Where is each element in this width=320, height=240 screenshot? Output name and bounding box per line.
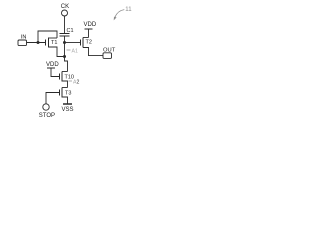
terminal OUT [103, 53, 112, 59]
transistor T3 [60, 88, 68, 104]
wire node A1 to T10 drain (with jog) [65, 57, 68, 72]
node CK label [61, 4, 69, 10]
node A2 leader [69, 80, 73, 82]
node A1 leader [67, 49, 71, 51]
svg-text:VSS: VSS [62, 107, 74, 113]
svg-text:T2: T2 [86, 39, 92, 45]
svg-text:11: 11 [125, 7, 132, 13]
power VDD rail (left) [47, 68, 60, 77]
power VDD rail (right) [85, 29, 93, 38]
terminal STOP [43, 104, 49, 110]
junction node A1 top [63, 41, 66, 44]
svg-text:IN: IN [21, 34, 27, 40]
capacitor C1 [60, 34, 70, 37]
reference numeral 11 [125, 7, 132, 13]
label T2 [86, 39, 92, 45]
label T10 [65, 74, 74, 80]
svg-text:CK: CK [61, 4, 69, 10]
svg-text:VDD: VDD [46, 62, 59, 68]
wire T3 gate to STOP [46, 93, 60, 104]
svg-text:A2: A2 [73, 80, 79, 86]
node IN label [21, 34, 27, 40]
node VDD label (right) [84, 22, 97, 28]
node VDD label (left) [46, 62, 59, 68]
node A1 label [72, 49, 78, 55]
svg-text:T1: T1 [51, 40, 57, 46]
wire C1 to node A1 (vertical) [64, 36, 66, 57]
junction node A1 bottom [63, 55, 66, 58]
terminal CK [62, 10, 68, 16]
svg-text:STOP: STOP [39, 113, 55, 119]
power VSS rail [63, 103, 72, 105]
node STOP label [39, 113, 55, 119]
svg-text:A1: A1 [72, 49, 78, 55]
svg-text:VDD: VDD [84, 22, 97, 28]
terminal IN [18, 40, 27, 46]
node VSS label [62, 107, 74, 113]
node A2 label [73, 80, 79, 86]
node OUT label [103, 47, 116, 53]
wire IN to T1 gate [27, 42, 46, 44]
svg-text:T3: T3 [65, 90, 71, 96]
leader arrow for 11 [114, 10, 125, 21]
wire gate-drain loop of T1 [38, 31, 57, 43]
junction on IN wire [37, 41, 40, 44]
transistor T10 [60, 72, 68, 88]
transistor T1 [46, 38, 65, 57]
transistor T2 [81, 38, 104, 56]
label C1 [67, 28, 74, 34]
label T3 [65, 90, 71, 96]
svg-text:C1: C1 [67, 28, 74, 34]
label T1 [51, 40, 57, 46]
wire node A1 to T2 gate [65, 42, 81, 44]
wire CK to C1 [64, 16, 66, 34]
